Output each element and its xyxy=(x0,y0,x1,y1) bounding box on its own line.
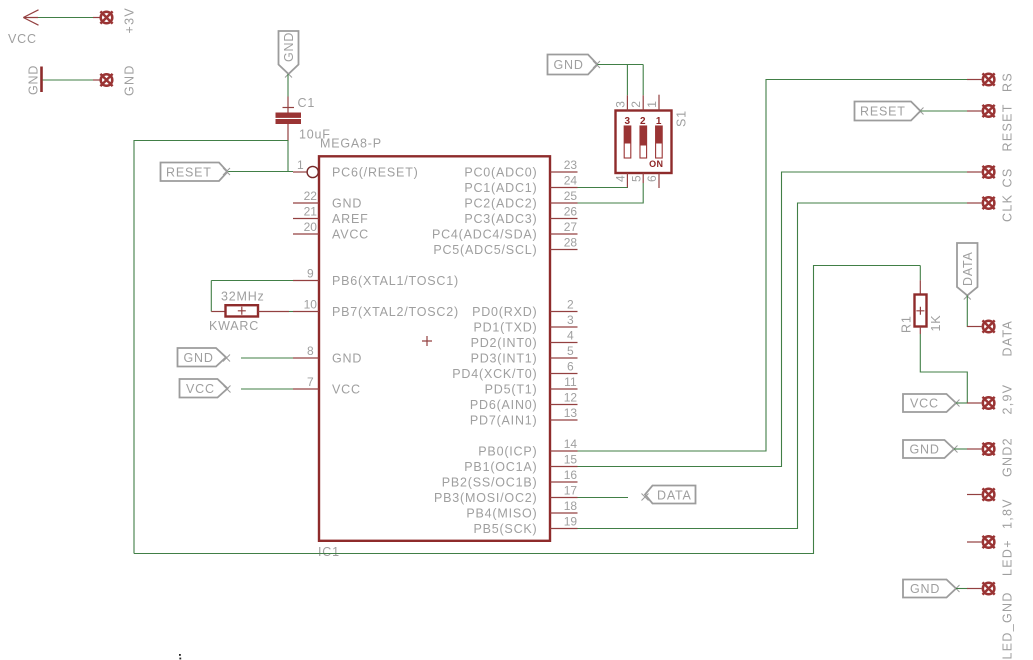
svg-text:6: 6 xyxy=(645,175,659,182)
pin 13 PD7(AIN1) xyxy=(470,406,578,427)
svg-text:PB0(ICP): PB0(ICP) xyxy=(478,444,537,458)
svg-text:PB3(MOSI/OC2): PB3(MOSI/OC2) xyxy=(434,491,537,505)
pin 9 PB6(XTAL1/TOSC1) xyxy=(293,267,459,288)
svg-text:7: 7 xyxy=(307,375,314,389)
svg-text:PC2(ADC2): PC2(ADC2) xyxy=(464,196,537,210)
svg-text:15: 15 xyxy=(564,453,578,467)
svg-text:1: 1 xyxy=(297,158,304,172)
svg-text:PD0(RXD): PD0(RXD) xyxy=(472,305,537,319)
junction x xyxy=(642,494,649,501)
junction x xyxy=(223,355,230,362)
net label GND flag (GND2) xyxy=(903,440,954,458)
pin pad CLK xyxy=(967,194,1015,222)
pin 5 PD3(INT1) xyxy=(471,344,578,365)
svg-text:5: 5 xyxy=(629,175,643,182)
svg-text:RS: RS xyxy=(1001,72,1015,92)
svg-text:PD4(XCK/T0): PD4(XCK/T0) xyxy=(452,367,537,381)
svg-text:VCC: VCC xyxy=(332,382,361,396)
pin 21 AREF xyxy=(293,205,369,226)
svg-text:5: 5 xyxy=(567,344,574,358)
svg-text:25: 25 xyxy=(564,189,578,203)
svg-text:PD2(INT0): PD2(INT0) xyxy=(471,336,538,350)
svg-text:LED_GND: LED_GND xyxy=(1001,591,1015,659)
pin 8 GND xyxy=(293,344,362,365)
wire xyxy=(43,79,94,81)
net label DATA flag (vertical) xyxy=(957,243,978,296)
svg-text:3: 3 xyxy=(567,313,574,327)
svg-text:DATA: DATA xyxy=(961,251,975,286)
svg-text:2: 2 xyxy=(629,101,643,108)
wire RESET net bottom xyxy=(134,266,920,554)
svg-text:PC1(ADC1): PC1(ADC1) xyxy=(464,181,537,195)
junction x xyxy=(285,71,292,78)
pin stub xyxy=(93,17,100,19)
junction x xyxy=(224,386,231,393)
pin 6 stub xyxy=(645,173,659,188)
svg-text:26: 26 xyxy=(564,205,578,219)
pin 2 stub xyxy=(629,95,643,110)
wire RESET net left xyxy=(134,141,293,554)
pin 27 PC4(ADC4/SDA) xyxy=(432,220,578,241)
pin 20 AVCC xyxy=(293,220,369,241)
pin pad 1,8V xyxy=(967,488,1015,529)
svg-text:VCC: VCC xyxy=(8,32,37,46)
svg-text:DATA: DATA xyxy=(1001,320,1015,357)
svg-text:1: 1 xyxy=(656,116,662,127)
svg-text:GND: GND xyxy=(910,582,940,596)
svg-text:4: 4 xyxy=(614,175,628,182)
pin 3 PD1(TXD) xyxy=(473,313,577,334)
svg-text:PB6(XTAL1/TOSC1): PB6(XTAL1/TOSC1) xyxy=(332,274,459,288)
svg-text:11: 11 xyxy=(564,375,577,389)
pin pad LED+ xyxy=(967,536,1015,576)
ic U1 MEGA8-P body xyxy=(318,137,550,559)
wire S1 pin5 to IC pin25 xyxy=(578,183,644,203)
svg-text:RESET: RESET xyxy=(860,105,906,119)
svg-text:VCC: VCC xyxy=(910,396,939,410)
svg-text:IC1: IC1 xyxy=(318,545,340,559)
wire CLK net xyxy=(578,203,968,529)
svg-text:2: 2 xyxy=(640,116,646,127)
svg-text:GND: GND xyxy=(27,65,41,95)
svg-text:10: 10 xyxy=(304,298,318,312)
svg-text:GND: GND xyxy=(332,351,362,365)
pin 6 PD4(XCK/T0) xyxy=(452,360,577,381)
resistor R1 1K xyxy=(900,266,944,335)
colon mark xyxy=(179,654,181,659)
net label GND flag (above C1) xyxy=(279,31,299,74)
pin pad 2,9V xyxy=(967,384,1015,415)
junction x xyxy=(223,168,230,175)
svg-text:1K: 1K xyxy=(929,315,943,332)
pin 23 PC0(ADC0) xyxy=(464,158,577,179)
svg-text:3: 3 xyxy=(613,101,627,108)
svg-text:PD5(T1): PD5(T1) xyxy=(485,382,538,396)
svg-text:17: 17 xyxy=(564,484,578,498)
pin 1 PC6(/RESET) xyxy=(293,158,419,179)
svg-text:PB4(MISO): PB4(MISO) xyxy=(466,506,537,520)
svg-text:KWARC: KWARC xyxy=(209,319,259,333)
wire xyxy=(956,402,968,404)
wire GND to switch xyxy=(598,65,644,96)
svg-text:+3V: +3V xyxy=(123,7,137,34)
svg-text:GND2: GND2 xyxy=(1001,437,1015,477)
svg-text:CLK: CLK xyxy=(1001,194,1015,222)
svg-text:21: 21 xyxy=(304,205,318,219)
svg-text:2: 2 xyxy=(567,298,574,312)
wire R1 bottom to 2,9V xyxy=(920,334,967,403)
wire xyxy=(38,17,93,19)
svg-text:2,9V: 2,9V xyxy=(1001,384,1015,415)
svg-text:8: 8 xyxy=(307,344,314,358)
wire RS net xyxy=(578,80,968,452)
pin pad DATA xyxy=(967,320,1015,357)
svg-text:AVCC: AVCC xyxy=(332,227,369,241)
pin 12 PD6(AIN0) xyxy=(470,391,578,412)
svg-text:28: 28 xyxy=(564,236,578,250)
wire DATA to pad xyxy=(966,296,968,327)
svg-text:PD6(AIN0): PD6(AIN0) xyxy=(470,398,538,412)
pin 1 stub xyxy=(645,95,659,111)
pin pad GND2 xyxy=(967,437,1015,477)
svg-text:4: 4 xyxy=(567,329,574,343)
net label DATA flag (left pointing) xyxy=(645,486,696,504)
svg-text:DATA: DATA xyxy=(657,488,692,502)
svg-text:16: 16 xyxy=(564,468,578,482)
svg-text:20: 20 xyxy=(304,220,318,234)
supply symbol VCC xyxy=(8,10,39,46)
svg-text:RESET: RESET xyxy=(166,166,212,180)
svg-text:32MHz: 32MHz xyxy=(221,289,265,303)
pin 4 PD2(INT0) xyxy=(471,329,578,350)
svg-text:PD7(AIN1): PD7(AIN1) xyxy=(470,413,538,427)
pin 4 stub xyxy=(614,173,628,188)
ground symbol GND xyxy=(27,65,42,95)
svg-text:S1: S1 xyxy=(675,110,689,127)
net label GND flag (switch) xyxy=(548,55,598,75)
svg-text:C1: C1 xyxy=(298,96,316,110)
net label RESET flag (right) xyxy=(855,102,921,121)
pin 5 stub xyxy=(629,173,643,183)
pad GND xyxy=(100,64,136,96)
wire xyxy=(921,110,968,112)
pin 25 PC2(ADC2) xyxy=(464,189,577,210)
wire XTAL net xyxy=(211,281,293,312)
svg-text:ON: ON xyxy=(649,159,663,169)
pin pad CS xyxy=(967,166,1015,188)
pin pad LED_GND xyxy=(967,582,1015,659)
svg-text:PD3(INT1): PD3(INT1) xyxy=(471,351,538,365)
wire xyxy=(241,388,293,390)
wire CS net xyxy=(578,172,968,467)
svg-text:PB7(XTAL2/TOSC2): PB7(XTAL2/TOSC2) xyxy=(332,305,459,319)
net label VCC flag (pin 7) xyxy=(180,379,228,398)
pin 22 GND xyxy=(293,189,362,210)
junction x xyxy=(964,293,971,300)
svg-text:R1: R1 xyxy=(900,315,914,333)
svg-text:19: 19 xyxy=(564,515,578,529)
pin stub xyxy=(93,79,100,81)
net label GND flag (pin 8) xyxy=(178,348,227,367)
pin 16 PB2(SS/OC1B) xyxy=(442,468,578,489)
pin pad RS xyxy=(967,72,1015,92)
wire xyxy=(241,357,293,359)
pin 24 PC1(ADC1) xyxy=(464,174,577,195)
svg-text:1: 1 xyxy=(645,101,659,108)
svg-text:13: 13 xyxy=(564,406,578,420)
svg-text:18: 18 xyxy=(564,499,578,513)
svg-text:MEGA8-P: MEGA8-P xyxy=(320,137,382,151)
svg-text:PC3(ADC3): PC3(ADC3) xyxy=(464,212,537,226)
junction x xyxy=(953,400,960,407)
svg-text:LED+: LED+ xyxy=(1001,539,1015,576)
svg-text:PB1(OC1A): PB1(OC1A) xyxy=(464,460,537,474)
pin 7 VCC xyxy=(293,375,361,396)
svg-text:GND: GND xyxy=(123,64,137,96)
pin 14 PB0(ICP) xyxy=(478,437,577,458)
pin 26 PC3(ADC3) xyxy=(464,205,577,226)
svg-text:GND: GND xyxy=(332,196,362,210)
svg-text:GND: GND xyxy=(554,58,584,72)
svg-text:RESET: RESET xyxy=(1001,103,1015,151)
junction x xyxy=(953,585,960,592)
junction x xyxy=(593,61,600,68)
svg-text:PC5(ADC5/SCL): PC5(ADC5/SCL) xyxy=(433,243,537,257)
capacitor C1 xyxy=(276,96,331,142)
svg-text:14: 14 xyxy=(564,437,578,451)
pin 15 PB1(OC1A) xyxy=(464,453,577,474)
net label VCC flag (2,9V) xyxy=(903,394,956,412)
wire DATA net (pin17) xyxy=(578,497,629,499)
pin 28 PC5(ADC5/SCL) xyxy=(433,236,577,257)
svg-text:GND: GND xyxy=(910,442,940,456)
switch S1 body xyxy=(616,110,689,173)
pin 18 PB4(MISO) xyxy=(466,499,577,520)
svg-text:GND: GND xyxy=(282,32,296,62)
svg-text:CS: CS xyxy=(1001,168,1015,188)
crystal Q1 32MHz KWARC xyxy=(209,289,289,333)
pin 2 PD0(RXD) xyxy=(472,298,577,319)
svg-text:PC0(ADC0): PC0(ADC0) xyxy=(464,165,537,179)
svg-text:9: 9 xyxy=(307,267,314,281)
pin 3 stub xyxy=(613,95,627,110)
svg-text:24: 24 xyxy=(564,174,578,188)
svg-text:AREF: AREF xyxy=(332,212,369,226)
pin 19 PB5(SCK) xyxy=(473,515,577,536)
wire xyxy=(954,448,968,450)
net label RESET flag xyxy=(161,163,228,182)
svg-text:VCC: VCC xyxy=(186,382,215,396)
svg-text:3: 3 xyxy=(625,116,631,127)
svg-text:PD1(TXD): PD1(TXD) xyxy=(473,320,537,334)
pad +3V xyxy=(100,7,136,34)
svg-text:PB2(SS/OC1B): PB2(SS/OC1B) xyxy=(442,475,538,489)
pin 17 PB3(MOSI/OC2) xyxy=(434,484,577,505)
svg-text:PC6(/RESET): PC6(/RESET) xyxy=(332,165,419,179)
wire S1 pin4 to IC pin24 xyxy=(578,187,628,190)
pin 11 PD5(T1) xyxy=(485,375,578,396)
svg-text:6: 6 xyxy=(567,360,574,374)
wire xyxy=(956,588,968,590)
svg-text:23: 23 xyxy=(564,158,578,172)
svg-text:22: 22 xyxy=(304,189,318,203)
svg-text:PC4(ADC4/SDA): PC4(ADC4/SDA) xyxy=(432,227,538,241)
svg-text:27: 27 xyxy=(564,220,578,234)
svg-text:1,8V: 1,8V xyxy=(1001,498,1015,529)
junction x xyxy=(917,108,924,115)
svg-text:GND: GND xyxy=(184,351,214,365)
pin 10 PB7(XTAL2/TOSC2) xyxy=(293,298,459,319)
wire xyxy=(287,74,289,97)
junction x xyxy=(951,446,958,453)
net label GND flag (LED_GND) xyxy=(903,580,956,598)
svg-text:PB5(SCK): PB5(SCK) xyxy=(473,522,537,536)
svg-text:12: 12 xyxy=(564,391,578,405)
pin pad RESET xyxy=(967,103,1015,151)
